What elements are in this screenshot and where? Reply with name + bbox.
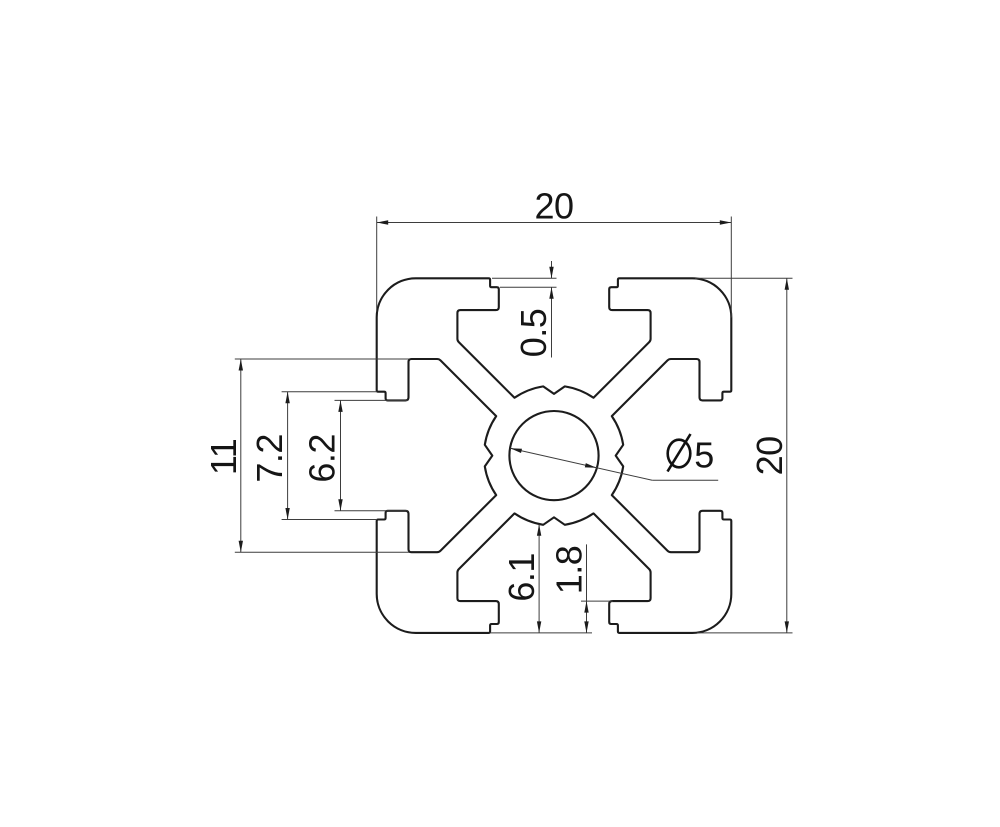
svg-text:20: 20 [534, 186, 573, 227]
svg-text:11: 11 [203, 439, 244, 475]
svg-text:6.1: 6.1 [501, 553, 542, 602]
dimension 6.1 dimension line [538, 524, 540, 633]
dimension 20 (right height) dimension line [786, 278, 788, 633]
dimension 1.8 dimension line and arrows [586, 544, 588, 633]
svg-text:0.5: 0.5 [513, 309, 554, 358]
dimension 11 dimension line [240, 359, 242, 552]
dimension 6.2 dimension line [340, 400, 342, 510]
dimension 6.1 extension line [490, 632, 592, 634]
dimension diameter-5 label [668, 434, 691, 472]
dimension 20 (right height) extension lines [695, 277, 793, 279]
svg-text:7.2: 7.2 [249, 434, 290, 483]
dimension diameter-5 leader line [510, 448, 652, 480]
svg-text:1.8: 1.8 [548, 546, 589, 595]
aluminium extrusion profile outline [377, 278, 732, 633]
dimension 11 extension lines [235, 358, 409, 360]
svg-text:6.2: 6.2 [302, 434, 343, 483]
center bore hole (diameter 5) [509, 411, 598, 500]
dimension 20 (top width) extension lines [376, 217, 378, 312]
dimension 0.5 dimension line and arrows [551, 261, 553, 278]
dimension 7.2 dimension line [287, 392, 289, 520]
dimension 1.8 extension line [581, 600, 613, 602]
dimension 6.2 extension lines [335, 399, 409, 401]
dimension 0.5 extension lines [492, 277, 557, 279]
dimension 7.2 extension lines [282, 391, 377, 393]
svg-text:20: 20 [749, 436, 790, 475]
dimension 20 (top width) dimension line [377, 222, 732, 224]
svg-text:5: 5 [694, 435, 714, 476]
